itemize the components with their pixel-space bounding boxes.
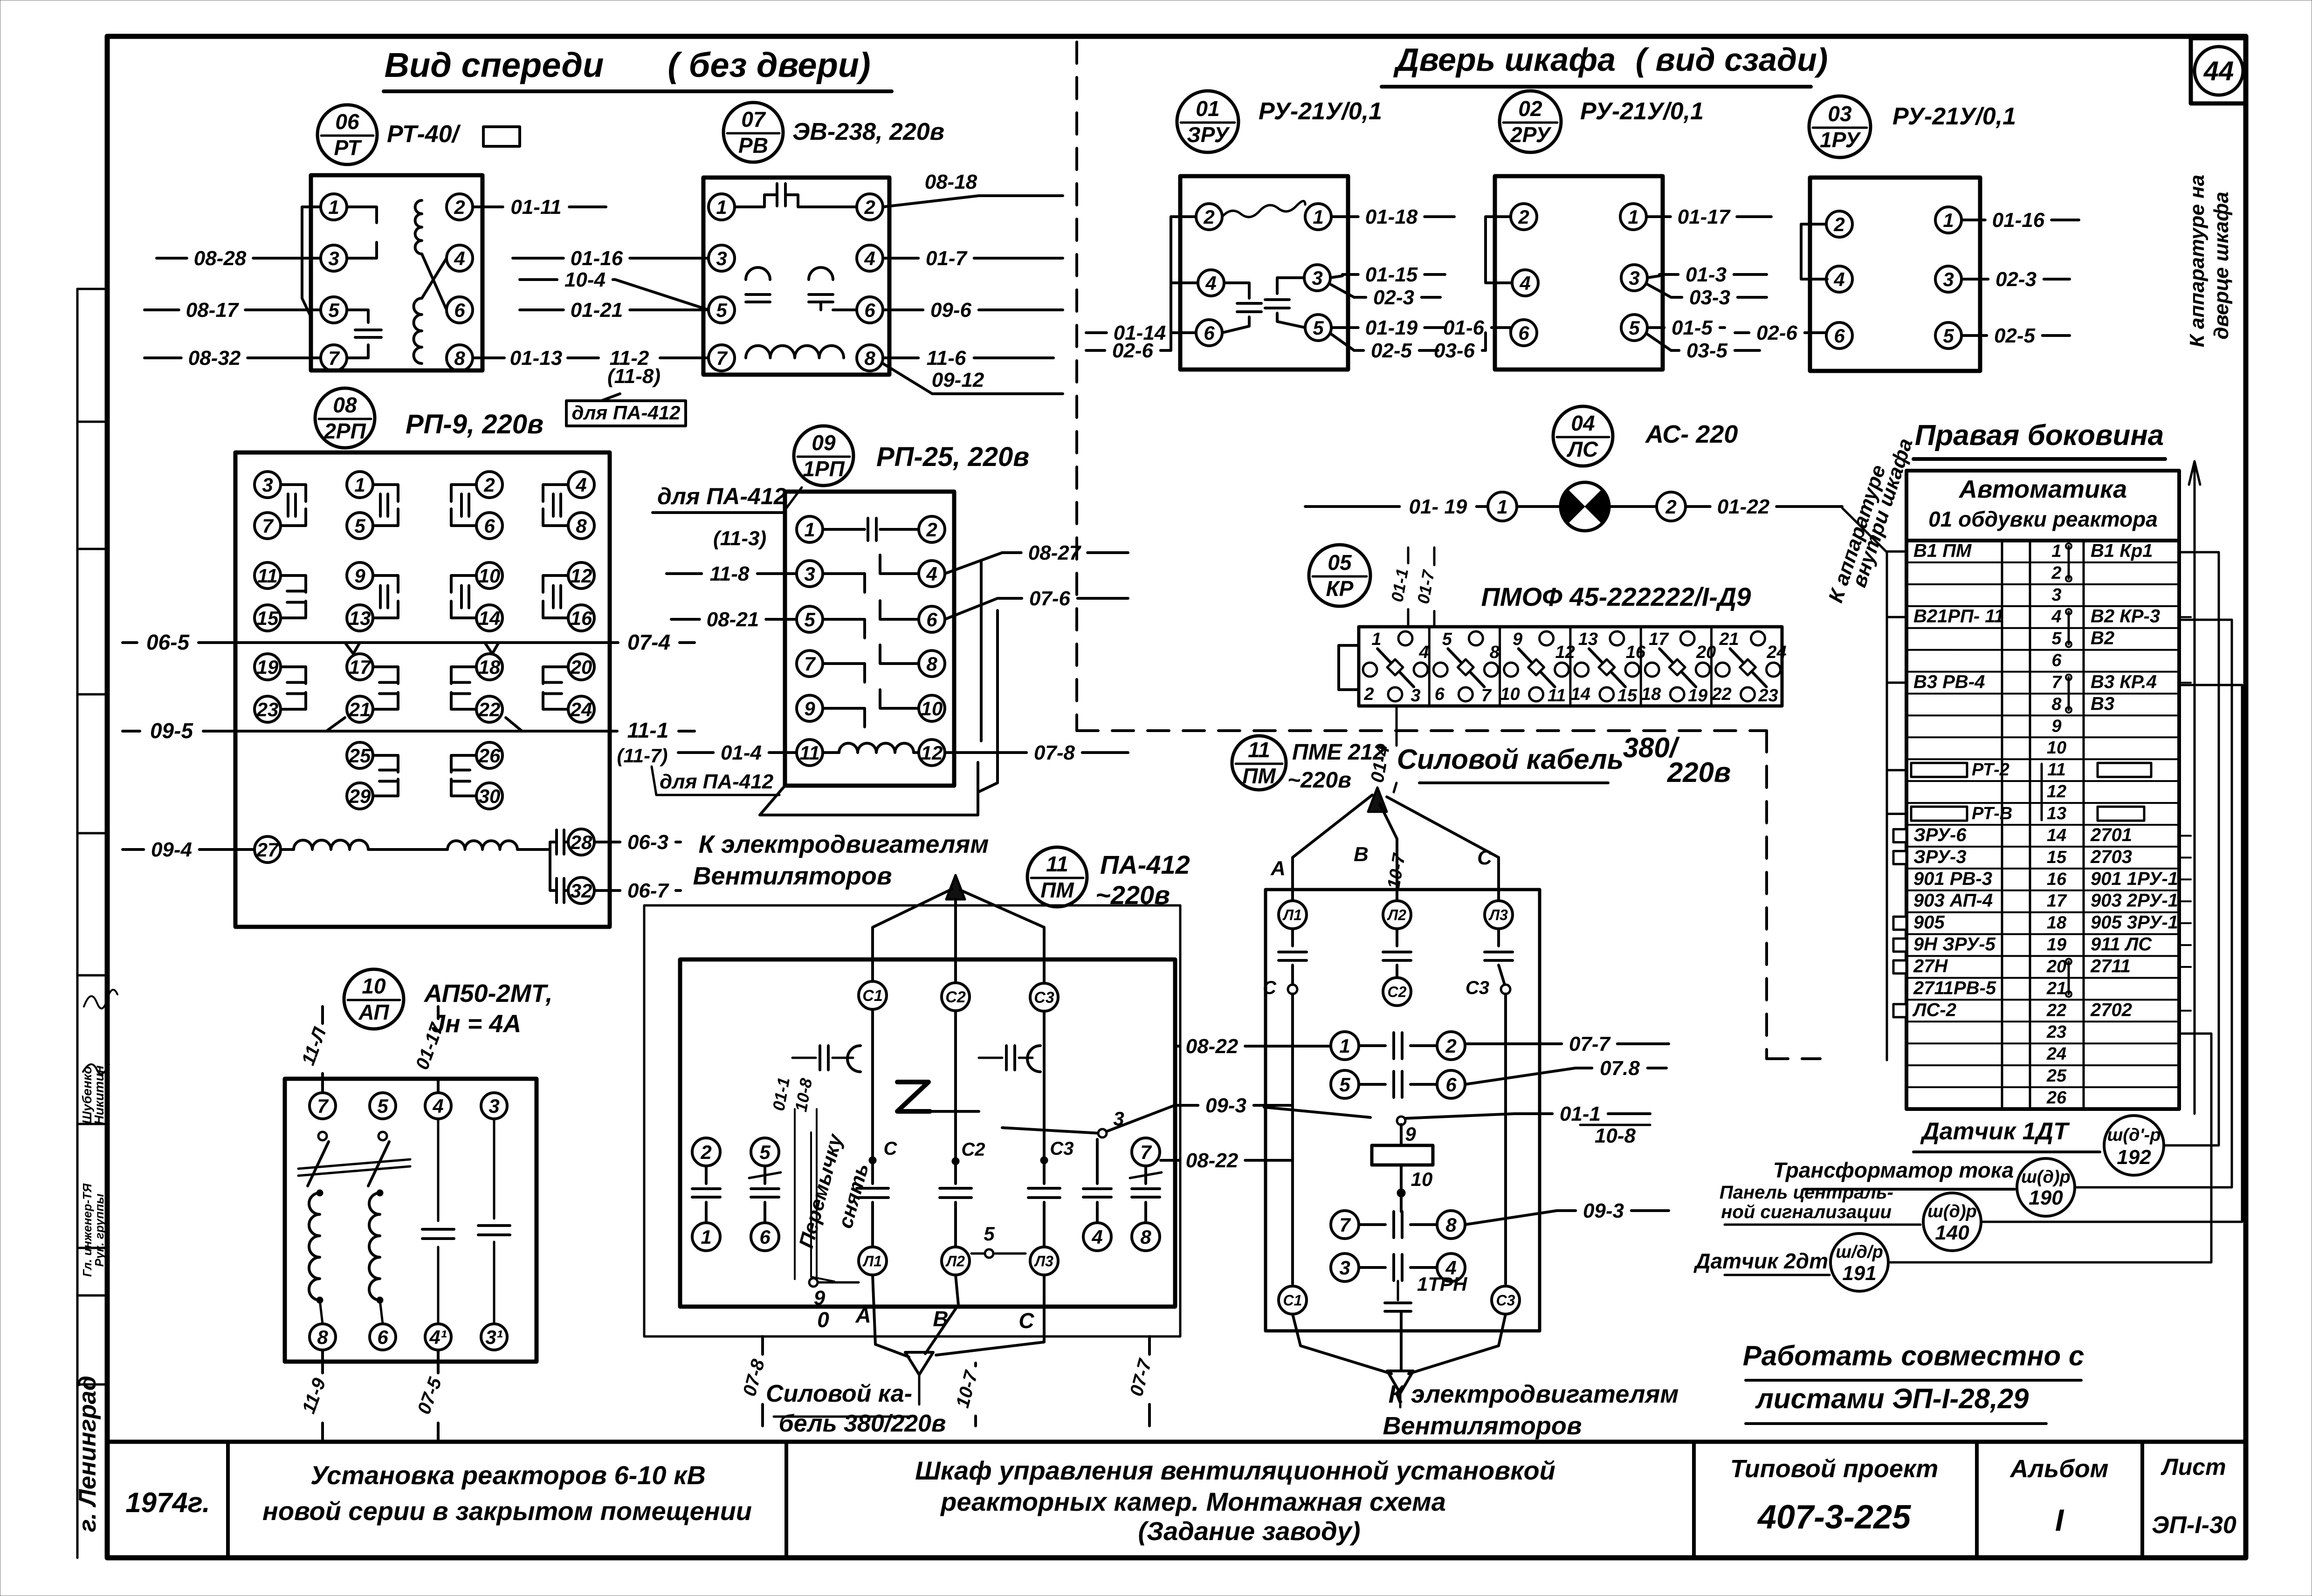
svg-text:2: 2: [1833, 213, 1844, 235]
table body outline: [1906, 541, 2179, 1109]
svg-text:РТ-В: РТ-В: [1972, 804, 2012, 823]
lead 11-L2 top: [321, 1007, 324, 1023]
svg-text:01: 01: [1196, 96, 1219, 121]
svg-text:10-4: 10-4: [564, 268, 606, 291]
main contact C2-L2: [954, 1011, 957, 1184]
cap PME 3-4: [1359, 1266, 1385, 1269]
relay block 02/2RU outline: [1495, 176, 1663, 370]
terminal 09-12: [919, 740, 945, 766]
node C3 small: [1040, 1157, 1048, 1164]
breaker block 10/AP outline: [285, 1079, 537, 1362]
svg-text:6: 6: [377, 1326, 388, 1348]
svg-text:9: 9: [814, 1287, 826, 1309]
svg-text:4: 4: [1519, 272, 1530, 294]
wire 01-5: [1647, 326, 1664, 329]
bracket left of 1RU: [1801, 224, 1827, 279]
svg-text:5: 5: [716, 299, 727, 321]
svg-text:7: 7: [804, 653, 816, 675]
terminal 08-27: [255, 836, 281, 863]
svg-text:8: 8: [576, 515, 587, 537]
terminal 10-8: [310, 1324, 336, 1350]
svg-text:01-3: 01-3: [1686, 263, 1727, 286]
terminal C3: [1030, 983, 1058, 1011]
wire 02-5b: [1961, 334, 1987, 337]
cam switch divider 5: [1710, 627, 1713, 706]
svg-text:3: 3: [1339, 1257, 1350, 1279]
svg-text:13: 13: [349, 607, 371, 629]
relay 08 contact pair 10-14: [476, 562, 502, 589]
svg-text:РУ-21У/0,1: РУ-21У/0,1: [1259, 98, 1382, 125]
svg-text:17: 17: [1649, 630, 1669, 649]
svg-text:6: 6: [926, 609, 937, 630]
svg-text:24: 24: [2046, 1044, 2066, 1064]
svg-text:К аппаратуре на: К аппаратуре на: [2186, 175, 2209, 347]
svg-text:8: 8: [1140, 1226, 1151, 1248]
svg-text:Датчик 1ДТ: Датчик 1ДТ: [1920, 1118, 2070, 1145]
svg-text:С3: С3: [1034, 989, 1054, 1007]
connector circle 192: [2104, 1116, 2164, 1175]
svg-text:С: С: [1263, 978, 1277, 998]
svg-text:15: 15: [1617, 686, 1638, 706]
svg-text:04: 04: [1571, 411, 1595, 435]
svg-text:19: 19: [1688, 686, 1707, 706]
lead 07-7 bottom rotated: [1148, 1336, 1151, 1354]
relay block 01/3RU outline: [1180, 176, 1348, 370]
svg-text:191: 191: [1842, 1262, 1876, 1285]
svg-text:~220в: ~220в: [1287, 768, 1351, 793]
svg-text:7: 7: [1481, 686, 1492, 706]
svg-text:С3: С3: [1466, 978, 1489, 998]
bus wire 09-5 to 11-1: [123, 730, 140, 733]
terminal 09-1: [797, 516, 823, 542]
terminal PME 6: [1437, 1070, 1465, 1098]
terminal 06-6: [447, 297, 473, 323]
svg-text:140: 140: [1935, 1221, 1969, 1244]
cam section 5-8 circles: [1469, 631, 1483, 645]
svg-text:21: 21: [349, 699, 371, 720]
svg-text:2: 2: [483, 474, 495, 496]
terminal 1RU-3: [1935, 266, 1961, 292]
relay 08/2RP designator: [315, 388, 375, 448]
table row line 9: [1906, 714, 2179, 716]
contact 09 at 1231: [823, 574, 865, 592]
bus wire 09-4: [123, 848, 144, 851]
cam section 21-24 contact: [1730, 649, 1767, 687]
svg-text:29: 29: [349, 785, 371, 807]
svg-text:В3: В3: [2091, 693, 2114, 714]
table row line 22: [1906, 999, 2179, 1000]
terminal 2RU-6: [1511, 320, 1537, 346]
terminal PME 2: [1437, 1032, 1465, 1060]
coil 08 B: [368, 848, 447, 851]
svg-text:32: 32: [571, 880, 592, 902]
node C3 PME: [1501, 985, 1510, 994]
relay 08 contact pair 12-16: [568, 562, 594, 589]
capacitor 09 1-2: [823, 528, 865, 531]
cam section 1-4 circles: [1398, 631, 1412, 645]
breaker pole 4 capacitor: [437, 1119, 440, 1221]
table row line 26: [1906, 1086, 2179, 1088]
terminal L3: [1030, 1247, 1058, 1275]
svg-text:2701: 2701: [2090, 825, 2132, 845]
table row line 18: [1906, 911, 2179, 913]
terminal L1: [859, 1247, 887, 1275]
svg-text:1: 1: [1628, 206, 1638, 228]
lamp wire a: [1517, 505, 1561, 508]
bracket left of 3RU: [1171, 217, 1196, 333]
table row line 8: [1906, 692, 2179, 694]
svg-text:(Задание заводу): (Задание заводу): [1138, 1516, 1360, 1546]
svg-text:ЗРУ-3: ЗРУ-3: [1913, 847, 1967, 867]
terminal 2RU-4: [1512, 270, 1538, 296]
svg-text:16: 16: [1626, 643, 1646, 662]
svg-text:С1: С1: [1283, 1292, 1302, 1309]
svg-text:10: 10: [1500, 685, 1520, 704]
svg-text:8: 8: [2051, 694, 2062, 714]
main contact C1-L1: [871, 1009, 874, 1184]
terminal 06-2: [447, 194, 473, 220]
svg-text:С1: С1: [862, 987, 882, 1005]
svg-text:12: 12: [2047, 782, 2066, 801]
terminal PME 1: [1331, 1032, 1359, 1060]
wire 09-3 PME right: [1465, 1211, 1571, 1225]
svg-text:Альбом: Альбом: [2009, 1455, 2108, 1483]
wire 03-3: [1647, 284, 1671, 297]
breaker 10/AP designator: [344, 969, 404, 1029]
terminal 3RU-1: [1305, 204, 1331, 230]
phase wire C2 up: [954, 900, 957, 983]
cam section 13-16 circles: [1610, 631, 1624, 645]
table pad row 20: [1893, 960, 1906, 973]
svg-text:РТ-40/: РТ-40/: [387, 121, 461, 148]
svg-text:10: 10: [479, 565, 501, 587]
svg-text:2РУ: 2РУ: [1510, 123, 1552, 147]
terminal C1 PME bottom: [1279, 1286, 1307, 1314]
wire 08-22 right bottom: [1161, 1159, 1179, 1162]
lead 07-5 bottom: [437, 1350, 440, 1373]
svg-text:2: 2: [454, 196, 465, 218]
breaker pole 7 contact: [318, 1132, 327, 1140]
svg-text:РТ-2: РТ-2: [1972, 760, 2009, 780]
wire 01-4: [678, 751, 713, 754]
svg-text:903 2РУ-1: 903 2РУ-1: [2091, 890, 2178, 911]
phase wire C PME: [1387, 797, 1499, 901]
wire 08-22b into PME: [1264, 1159, 1293, 1162]
svg-text:ЛС-2: ЛС-2: [1912, 1000, 1956, 1020]
svg-text:11: 11: [1046, 852, 1068, 876]
svg-text:4: 4: [1833, 268, 1844, 290]
svg-text:13: 13: [2047, 804, 2066, 823]
table row line 19: [1906, 933, 2179, 935]
svg-text:3: 3: [1411, 686, 1420, 706]
svg-text:ПМОФ 45-222222/I-Д9: ПМОФ 45-222222/I-Д9: [1481, 582, 1751, 611]
svg-text:08-18: 08-18: [925, 171, 977, 193]
table pad row 15: [1893, 851, 1906, 864]
svg-text:Л2: Л2: [1387, 907, 1406, 924]
svg-text:10: 10: [2047, 738, 2066, 758]
svg-text:Работать совместно с: Работать совместно с: [1743, 1340, 2084, 1371]
svg-text:407-3-225: 407-3-225: [1757, 1499, 1911, 1536]
node 5 between L2 L3: [971, 1253, 1025, 1255]
loop wire right of 09: [980, 562, 983, 741]
lead 10-7 bottom rotated: [974, 1363, 977, 1366]
wire 08-21: [671, 618, 700, 621]
svg-text:1: 1: [354, 474, 365, 496]
svg-text:(11-8): (11-8): [607, 365, 661, 388]
terminal 7: [1132, 1138, 1160, 1166]
wire 08-28: [157, 257, 187, 260]
terminal 3RU-3: [1304, 265, 1330, 291]
svg-text:11: 11: [1248, 738, 1270, 762]
terminal 1: [692, 1223, 720, 1251]
terminal 09-8: [919, 651, 945, 677]
terminal 1RU-5: [1935, 322, 1961, 349]
svg-text:18: 18: [2047, 913, 2067, 933]
table row line 11: [1906, 758, 2179, 760]
table jumper 20-21: [2068, 962, 2070, 994]
svg-text:09-3: 09-3: [1583, 1199, 1624, 1222]
wire 06-3: [594, 841, 620, 843]
terminal PME L1: [1279, 901, 1307, 929]
terminal PME 7: [1331, 1211, 1359, 1239]
svg-text:09-4: 09-4: [151, 838, 192, 861]
relay 08 contact pair 1-5: [347, 472, 373, 498]
svg-text:01- 19: 01- 19: [1409, 495, 1467, 518]
svg-text:К электродвигателям: К электродвигателям: [1389, 1380, 1679, 1408]
svg-text:01-4: 01-4: [721, 741, 762, 764]
funnel PME lines: [1293, 1314, 1391, 1374]
wire 03-6: [1422, 349, 1426, 352]
table row line 2: [1906, 562, 2179, 563]
relay 09/1RP designator: [794, 426, 853, 486]
breaker pole 5 contact: [378, 1132, 387, 1140]
node C1 PME: [1288, 985, 1297, 994]
svg-text:1: 1: [1339, 1035, 1350, 1057]
svg-text:01-22: 01-22: [1717, 495, 1770, 518]
left column wire PME: [1291, 994, 1294, 1284]
table left tick row 13: [1887, 813, 1906, 815]
svg-text:3: 3: [1943, 268, 1954, 290]
wire 01-14: [1086, 331, 1107, 334]
table row line 25: [1906, 1064, 2179, 1066]
contact L1: [1291, 929, 1294, 946]
svg-text:03: 03: [1828, 102, 1852, 126]
svg-text:4: 4: [575, 474, 586, 496]
timer contact 07 right: [809, 267, 833, 280]
svg-text:В2 КР-3: В2 КР-3: [2091, 606, 2160, 627]
terminal 09-3: [797, 561, 823, 587]
svg-text:01-7: 01-7: [926, 247, 968, 270]
wire table to circle 191: [1889, 1034, 2211, 1262]
wire 10-4: [520, 278, 557, 281]
table row line 4: [1906, 605, 2179, 607]
svg-text:РП-9, 220в: РП-9, 220в: [406, 409, 544, 439]
svg-text:Вид спереди: Вид спереди: [385, 46, 604, 84]
relay 08 contact pair 17-21: [347, 654, 373, 680]
connector circle 190: [2017, 1158, 2075, 1216]
svg-text:6: 6: [484, 515, 495, 537]
terminal 07-1: [709, 194, 735, 220]
bracket left of 2RU: [1486, 217, 1512, 283]
relay 08 contact pair 2-6: [476, 472, 502, 498]
terminal PME 4: [1437, 1254, 1465, 1281]
svg-text:01-19: 01-19: [1365, 316, 1418, 339]
svg-text:06-3: 06-3: [627, 831, 668, 854]
wire 08-18: [883, 196, 1001, 207]
capacitor aux right: [979, 1057, 1002, 1059]
svg-text:С3: С3: [1496, 1292, 1515, 1309]
svg-text:17: 17: [349, 656, 372, 678]
svg-text:16: 16: [2047, 870, 2067, 889]
svg-text:5: 5: [1313, 317, 1324, 339]
table RT-2 rectangle: [1911, 763, 1967, 777]
lamp terminal 1: [1488, 492, 1517, 521]
svg-text:09-5: 09-5: [150, 719, 193, 743]
svg-text:3¹: 3¹: [485, 1326, 502, 1348]
svg-text:08-27: 08-27: [1028, 541, 1082, 564]
svg-text:7: 7: [716, 347, 728, 369]
relay 01/3RU designator: [1177, 91, 1239, 152]
svg-text:ПМЕ 212: ПМЕ 212: [1292, 740, 1385, 765]
svg-text:01-5: 01-5: [1672, 316, 1713, 339]
terminal 07-4: [857, 245, 883, 271]
svg-text:В1 Кр1: В1 Кр1: [2091, 541, 2153, 561]
terminal 09-10: [919, 695, 945, 721]
svg-text:5: 5: [377, 1095, 388, 1117]
svg-text:(11-3): (11-3): [713, 527, 766, 550]
bus wire 06-5 to 07-4: [123, 641, 137, 644]
wire 02-5 from 5: [1331, 334, 1354, 350]
svg-text:21: 21: [1719, 630, 1739, 649]
wire node3 to 09-3: [1002, 1128, 1100, 1133]
svg-text:3: 3: [2051, 585, 2061, 605]
cap PME 5-6: [1359, 1083, 1385, 1086]
svg-text:15: 15: [257, 607, 279, 629]
svg-text:03-5: 03-5: [1686, 339, 1728, 362]
svg-text:7: 7: [317, 1095, 329, 1117]
relay 02/2RU designator: [1500, 91, 1561, 152]
terminal 10-3: [481, 1093, 507, 1119]
svg-text:07: 07: [741, 107, 766, 131]
svg-text:РВ: РВ: [738, 133, 768, 158]
svg-text:1РУ: 1РУ: [1820, 128, 1862, 152]
coil 06 upper: [415, 200, 422, 254]
svg-text:реакторных камер. Монтаж: реакторных камер. Монтажная схема: [940, 1487, 1446, 1516]
svg-text:08: 08: [333, 393, 357, 417]
svg-text:Л1: Л1: [1282, 907, 1302, 924]
table row line 23: [1906, 1021, 2179, 1022]
capacitor 3RU a: [1224, 283, 1249, 298]
relay 08 contact pair 18-22: [476, 654, 502, 680]
terminal PME 5: [1331, 1070, 1359, 1098]
svg-text:22: 22: [1711, 685, 1731, 704]
svg-text:190: 190: [2029, 1186, 2063, 1209]
svg-text:07-8: 07-8: [1034, 741, 1075, 764]
svg-text:С: С: [884, 1138, 898, 1159]
cam section 13-16 contact: [1589, 649, 1625, 687]
coil 08 A: [281, 848, 294, 851]
svg-text:11: 11: [257, 565, 278, 587]
terminal 09-2: [919, 516, 945, 542]
svg-text:для ПА-412: для ПА-412: [571, 402, 680, 424]
svg-text:В2: В2: [2091, 628, 2114, 649]
svg-text:03-6: 03-6: [1434, 339, 1475, 362]
svg-text:16: 16: [571, 607, 592, 629]
capacitor 3RU b: [1277, 278, 1304, 294]
svg-text:13: 13: [1578, 630, 1598, 649]
relay 08 contact pair 4-8: [568, 472, 594, 498]
svg-text:12: 12: [1555, 643, 1575, 662]
arrow to door apparatus: [2194, 466, 2196, 1114]
svg-text:23: 23: [2046, 1022, 2066, 1042]
terminal 5: [751, 1138, 779, 1166]
cable funnel lines: [873, 1275, 909, 1357]
wire 01-15: [1330, 276, 1342, 278]
contact 06 1-3: [347, 207, 377, 223]
table left tick row 7: [1887, 682, 1906, 684]
relay block 06/RT outline: [311, 175, 482, 370]
svg-text:26: 26: [2046, 1088, 2067, 1108]
svg-text:для ПА-412: для ПА-412: [660, 770, 774, 793]
svg-text:7: 7: [2051, 672, 2062, 692]
svg-text:Л3: Л3: [1488, 907, 1508, 924]
svg-text:2РП: 2РП: [323, 419, 366, 443]
svg-text:03-3: 03-3: [1689, 286, 1730, 309]
svg-text:Автоматика: Автоматика: [1958, 475, 2127, 503]
svg-text:08-32: 08-32: [188, 347, 241, 370]
svg-text:6: 6: [759, 1226, 771, 1248]
funnel PME triangle: [1387, 1371, 1413, 1393]
svg-text:6: 6: [864, 299, 875, 321]
svg-text:02-6: 02-6: [1112, 339, 1154, 362]
svg-text:Силовой ка-: Силовой ка-: [766, 1380, 912, 1407]
table row line 5: [1906, 627, 2179, 629]
svg-text:22: 22: [478, 699, 501, 720]
contact cap 2-1: [705, 1166, 708, 1184]
table row line 14: [1906, 824, 2179, 826]
svg-text:901 1РУ-1: 901 1РУ-1: [2091, 869, 2178, 889]
svg-text:ш(д)р: ш(д)р: [1927, 1202, 1977, 1221]
table left tick row 4: [1887, 616, 1906, 618]
table jumper 4-5: [2068, 612, 2070, 644]
wire 01-11: [473, 205, 503, 208]
svg-text:2711: 2711: [2090, 956, 2131, 976]
svg-text:1: 1: [804, 519, 815, 541]
svg-text:Л1: Л1: [862, 1253, 882, 1270]
terminal 09-6: [919, 606, 945, 632]
wire 09-6: [883, 308, 923, 311]
terminal PME 3: [1331, 1254, 1359, 1281]
svg-text:ЗРУ-6: ЗРУ-6: [1913, 825, 1967, 845]
svg-text:8: 8: [1445, 1214, 1457, 1236]
node 10: [1400, 1165, 1403, 1191]
svg-text:В1 ПМ: В1 ПМ: [1913, 541, 1972, 561]
svg-text:07.8: 07.8: [1600, 1057, 1640, 1080]
svg-text:06-5: 06-5: [146, 630, 190, 654]
cam switch divider 1: [1428, 627, 1431, 706]
table left bus: [1886, 552, 1888, 1060]
terminal 07-6: [857, 297, 883, 323]
relay 03/1RU designator: [1809, 96, 1871, 158]
svg-text:В: В: [933, 1307, 948, 1331]
table left bus link: [1842, 508, 1887, 552]
starter 11/PM designator: [1027, 847, 1087, 907]
terminal 2RU-5: [1621, 315, 1647, 341]
svg-text:5: 5: [1339, 1074, 1350, 1096]
table row line 7: [1906, 671, 2179, 673]
title block dividers: [226, 1442, 230, 1558]
svg-text:7: 7: [1140, 1141, 1152, 1163]
